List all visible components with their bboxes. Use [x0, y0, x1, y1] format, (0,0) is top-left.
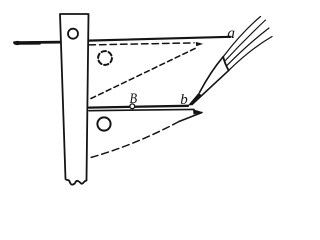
node: dashed circle (previous hole position) right of ruler [98, 51, 112, 65]
svg-text:a: a [227, 25, 235, 42]
wire: line B (solid horizontal, ruler to pencil tip) [89, 106, 188, 108]
pencil: body facet line 3 [227, 28, 269, 66]
wire: left horizontal line segment ending at ruler left edge [15, 41, 61, 44]
wire: dashed horizontal line below a (previous position) [89, 43, 194, 45]
wire: dashed diagonal continuing down-left to ruler edge [89, 122, 179, 159]
ruler: vertical strip body (white with black outline, broken bottom) [60, 14, 89, 185]
pencil: body facet line 2 [225, 20, 266, 61]
pencil: junction arc between cone and body [223, 57, 229, 71]
pencil: cone upper edge [200, 57, 224, 93]
pencil: body edge line 1 (top) [223, 17, 260, 57]
node: small arrow blob at right end of dashed line [196, 42, 203, 46]
node: solid circle right of ruler (lower) [97, 117, 110, 130]
pencil: cone lower edge [192, 70, 229, 104]
svg-text:b: b [180, 92, 188, 108]
pencil: body edge line 4 (bottom) [229, 37, 272, 71]
wire: line a (solid horizontal drawn line, ruler to right) [89, 37, 231, 41]
node: ink blob at left end of left line [14, 41, 21, 45]
node: point marker circle on line B [130, 104, 135, 109]
pencil: black sharpened tip (filled) [188, 93, 202, 106]
node: arrowhead at right end of edge guide [193, 109, 203, 114]
wire: dashed diagonal from ruler to dashed-line arrow [91, 47, 198, 98]
wire: lower edge line with arrowhead (ruler edge guide) [89, 109, 194, 110]
node: hole in ruler (top circle) [68, 29, 78, 39]
wire: solid diagonal from arrowhead going down-left [179, 113, 202, 122]
wire: thicker under-stroke of left line [15, 43, 40, 45]
